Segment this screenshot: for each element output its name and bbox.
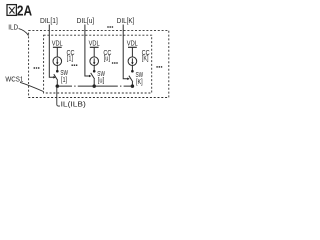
svg-text:[1]: [1]	[67, 54, 73, 63]
svg-text:VDL: VDL	[52, 38, 63, 47]
svg-text:DIL[K]: DIL[K]	[117, 16, 135, 25]
svg-text:IL(ILB): IL(ILB)	[61, 100, 86, 109]
svg-text:VDL: VDL	[89, 38, 100, 47]
svg-text:ILD: ILD	[8, 23, 18, 32]
svg-text:[u]: [u]	[104, 54, 110, 63]
svg-text:[K]: [K]	[136, 77, 143, 86]
svg-text:DIL[1]: DIL[1]	[40, 16, 58, 25]
svg-text:[u]: [u]	[98, 76, 104, 85]
svg-text:DIL[u]: DIL[u]	[77, 16, 95, 25]
svg-text:[1]: [1]	[61, 75, 67, 84]
svg-text:2A: 2A	[17, 3, 32, 20]
svg-text:[K]: [K]	[142, 54, 149, 63]
svg-text:VDL: VDL	[127, 38, 138, 47]
